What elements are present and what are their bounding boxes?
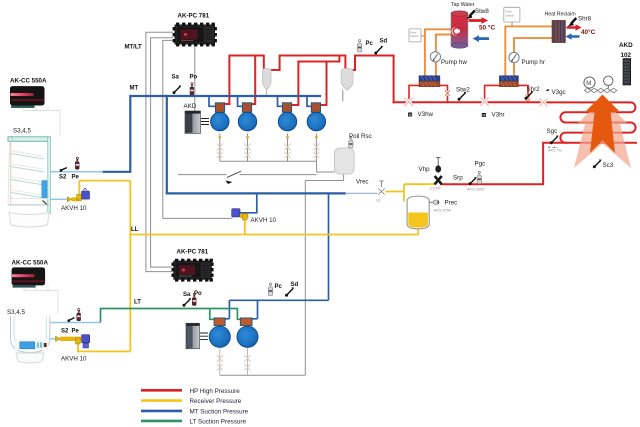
GREEN-CIRCUIT <box>101 309 243 323</box>
compressor M2 <box>238 103 256 139</box>
wire Vrec to receiver <box>386 192 405 202</box>
gas cooler air arrow shadow <box>574 99 631 168</box>
gas cooler air arrow <box>585 95 620 154</box>
sensor Sa LT probe <box>183 298 192 307</box>
wire liquid line LL <box>130 234 418 236</box>
pump hw <box>430 52 440 62</box>
wire oil stub LT comp1 <box>219 348 221 375</box>
sensor Sc3 probe <box>593 159 602 168</box>
wire discharge comp2 riser <box>251 56 255 105</box>
wire oil stub comp1 <box>219 134 221 162</box>
wire MT suction main from cases <box>103 96 320 172</box>
svg-text:AKS-2050: AKS-2050 <box>433 209 452 213</box>
svg-text:Sa: Sa <box>183 292 191 298</box>
tap water tank <box>451 11 468 48</box>
wire discharge comp3 riser <box>291 62 298 106</box>
wire LT suction drop comp1 <box>210 309 215 320</box>
wire tap-water loop return <box>425 29 452 75</box>
svg-text:S3,4,5: S3,4,5 <box>7 309 25 316</box>
controller AK-PC 781 (MT) <box>173 23 217 47</box>
wire ctrl-MT-3 to AKVH injection coil <box>163 40 233 218</box>
controller AK-CC 550A (LT) <box>12 267 46 287</box>
wire LT discharge comp2 <box>252 300 258 319</box>
wire liquid branch LT case <box>78 342 130 351</box>
gas cooler fan symbol <box>590 76 614 90</box>
svg-text:Sa: Sa <box>172 75 180 81</box>
svg-text:Switch: Switch <box>410 34 419 38</box>
ORANGE-CIRCUIT <box>425 26 552 75</box>
wire injection drop to AKVH <box>240 193 257 212</box>
wire MT case liquid feed <box>50 198 69 200</box>
wire flow-switch2 connector <box>511 22 513 26</box>
svg-text:Heat Reclaim: Heat Reclaim <box>545 12 576 18</box>
svg-text:M: M <box>586 81 591 87</box>
valve V3hw <box>405 98 413 106</box>
svg-text:Shr2: Shr2 <box>527 86 541 93</box>
compressor M4 <box>307 103 325 139</box>
wire oil-sep1 drain <box>266 86 268 96</box>
check valve CV1 <box>445 90 450 96</box>
flow switch 2 <box>504 7 520 22</box>
wire flow-switch1 connector <box>421 35 425 37</box>
sensor V3gc marker <box>547 90 550 91</box>
svg-text:Stw8: Stw8 <box>475 8 489 15</box>
wire LT discharge manifold <box>229 299 328 301</box>
wire MT case suction light <box>50 171 103 173</box>
sensor S2 MT probe <box>60 168 67 172</box>
wire oil-sep2 drain <box>342 90 344 102</box>
wire AK-CC MT to case sensors <box>24 106 60 136</box>
wire heat-exchanger Stw2 loop <box>409 85 448 102</box>
svg-text:S3,4,5: S3,4,5 <box>13 128 31 135</box>
wire LT discharge riser <box>328 193 330 300</box>
controller AK-PC 781 (LT) <box>172 259 214 282</box>
LEGEND <box>141 388 249 426</box>
valve V3hr <box>480 98 488 106</box>
svg-text:AKS Tw: AKS Tw <box>547 149 562 153</box>
svg-text:Vrec: Vrec <box>356 179 369 186</box>
compressor L1 <box>209 318 230 347</box>
svg-text:Srp: Srp <box>453 175 463 182</box>
sensor Shr2 probe <box>525 91 534 100</box>
wire AK-CC LT to case sensors <box>24 286 58 314</box>
arrow hot water out 50C <box>469 17 489 24</box>
wire suction drop comp3 <box>278 96 282 106</box>
svg-text:Switch: Switch <box>505 14 514 18</box>
svg-text:HP High Pressure: HP High Pressure <box>190 388 241 395</box>
drive AKD (LT) <box>186 323 208 348</box>
sensor Sa MT probe <box>173 85 182 94</box>
wire oil stub comp3 <box>287 134 289 162</box>
valve AKVH MT case <box>67 188 89 202</box>
sensor S2 LT probe <box>67 318 74 322</box>
sensor Sd LT probe <box>285 287 294 297</box>
svg-text:V3hw: V3hw <box>418 111 434 118</box>
wire LT case liquid feed <box>45 338 60 340</box>
SENSORS <box>60 11 602 323</box>
svg-text:50 °C: 50 °C <box>479 24 495 32</box>
switch break symbol <box>227 171 241 177</box>
YELLOW-CIRCUIT <box>78 181 435 352</box>
legend LT line <box>141 420 182 423</box>
flow switch 1 <box>409 29 421 42</box>
svg-text:AKVH 10: AKVH 10 <box>61 356 87 363</box>
wire discharge comp4 riser <box>320 62 327 106</box>
svg-text:Sgc: Sgc <box>547 128 558 135</box>
sensor Po LT transmitter <box>192 293 196 306</box>
svg-text:CCMT: CCMT <box>430 187 442 191</box>
wire receiver outlet <box>417 229 419 235</box>
svg-text:Tap Water: Tap Water <box>451 2 475 8</box>
controller AK-CC 550A (MT) <box>10 86 45 108</box>
wire suction header to Vrec <box>345 192 378 194</box>
service valves under LT compressors <box>217 355 251 371</box>
valve AKVH injection <box>232 209 249 220</box>
wire suction drop comp4 <box>307 96 311 106</box>
compressor M1 <box>211 103 229 139</box>
wire Vhp outlet to receiver <box>404 184 435 191</box>
svg-text:MT: MT <box>130 86 139 92</box>
svg-text:Poil Rsc: Poil Rsc <box>349 133 372 140</box>
svg-text:Receiver Pressure: Receiver Pressure <box>190 398 242 405</box>
display case LT island freezer <box>11 316 50 364</box>
svg-text:Pc: Pc <box>366 41 374 47</box>
svg-text:M: M <box>409 113 412 117</box>
wire oil-sep1 outlet <box>272 56 346 71</box>
svg-text:S2: S2 <box>59 175 67 181</box>
legend receiver line <box>141 399 182 402</box>
svg-text:LT: LT <box>134 300 141 306</box>
svg-text:AK-CC 550A: AK-CC 550A <box>10 78 47 85</box>
wire liquid main vertical <box>129 181 131 352</box>
wire oil equalizing line with break <box>178 174 317 176</box>
gas cooler serpentine coil <box>543 102 636 142</box>
heat exchanger Stw2 <box>419 76 440 87</box>
svg-text:AK-CC 550A: AK-CC 550A <box>12 260 49 267</box>
wire oil stub comp2 <box>247 134 249 162</box>
wire ctrl-MT-2 to LT controller <box>151 38 174 267</box>
svg-text:Pe: Pe <box>72 329 80 335</box>
wire oil reservoir to LT rack <box>305 174 343 375</box>
svg-text:AKD: AKD <box>184 103 197 110</box>
legend MT line <box>141 410 182 413</box>
oil separator 2 <box>341 68 353 90</box>
svg-text:Pump hw: Pump hw <box>441 59 467 66</box>
svg-text:V3hr: V3hr <box>492 112 505 119</box>
legend HP line <box>141 389 182 392</box>
wire heat-exchanger Shr2 loop <box>485 85 528 102</box>
arrow cold water in <box>473 35 489 42</box>
svg-text:S2: S2 <box>61 329 69 335</box>
drive AKD (MT) <box>185 111 209 133</box>
wire liquid branch injection AKVH <box>244 220 246 235</box>
svg-text:AKD: AKD <box>619 42 633 49</box>
WIRES-GRAY <box>24 22 512 375</box>
compressor M3 <box>278 103 296 139</box>
wire LT case suction light <box>46 322 101 324</box>
svg-text:AK-PC 781: AK-PC 781 <box>178 13 210 20</box>
svg-text:AK-PC 781: AK-PC 781 <box>177 249 209 256</box>
sensor Poil transmitter <box>349 137 353 148</box>
display case MT S3,4,5 <box>8 136 50 227</box>
gas cooler fan motor M <box>584 77 595 88</box>
wire suction header riser <box>166 96 168 193</box>
svg-text:Shr8: Shr8 <box>578 16 592 23</box>
drive AKD 102 <box>623 59 631 86</box>
wire tap-water loop pump line <box>436 35 452 76</box>
actuator M V3hr <box>482 113 486 117</box>
wire discharge comp1 riser <box>224 56 264 105</box>
svg-text:Sd: Sd <box>380 39 388 45</box>
svg-text:Po: Po <box>194 291 202 297</box>
wire lower suction header <box>167 192 345 194</box>
sensor Shr8 arrow <box>568 18 577 27</box>
svg-text:Pgc: Pgc <box>475 161 486 168</box>
compressor L2 <box>237 318 258 347</box>
COMPONENTS-RIGHT <box>56 7 632 348</box>
wire LT suction main <box>101 309 243 323</box>
wire ctrl to AKD drive <box>194 46 196 111</box>
heat reclaim coil unit <box>552 21 565 43</box>
sensor Pe LT transmitter <box>77 309 81 321</box>
label AKS Tw tiny <box>547 147 562 153</box>
svg-text:Pc: Pc <box>275 284 283 290</box>
svg-text:Po: Po <box>190 75 198 81</box>
wire oil collector MT <box>220 161 335 172</box>
wire heat-reclaim loop return <box>505 26 552 75</box>
svg-text:AKVH 10: AKVH 10 <box>61 205 87 212</box>
svg-text:40°C: 40°C <box>581 28 596 36</box>
wire suction drop comp1 <box>209 96 216 106</box>
sensor Srp probe <box>469 177 477 185</box>
sensor Sd HP probe <box>374 46 383 55</box>
sensor Pgc transmitter <box>477 171 481 184</box>
svg-text:Sd: Sd <box>291 282 299 288</box>
sensor Stw8 arrow <box>466 11 475 20</box>
pump hr <box>509 52 519 62</box>
sensor Pc HP transmitter <box>357 40 361 53</box>
svg-text:LT Suction Pressure: LT Suction Pressure <box>190 418 247 425</box>
wire heat-reclaim loop pump line <box>514 38 552 76</box>
svg-text:MT Suction Pressure: MT Suction Pressure <box>190 408 249 415</box>
valve AKVH LT case <box>56 335 90 348</box>
wire suction drop comp2 <box>238 96 243 106</box>
oil reservoir vessel <box>334 148 354 174</box>
receiver vessel <box>407 196 429 229</box>
svg-text:Sc3: Sc3 <box>603 162 614 169</box>
BLUE-CIRCUIT <box>45 96 378 339</box>
fan diamond linkage <box>585 88 617 93</box>
sensor Stw2 probe <box>458 92 467 101</box>
svg-text:Pe: Pe <box>72 175 80 181</box>
svg-text:LL: LL <box>131 227 139 233</box>
arrow heat reclaim in <box>566 33 580 39</box>
sensor Pc LT transmitter <box>268 283 272 296</box>
svg-text:V3gc: V3gc <box>552 89 566 96</box>
arrow heat reclaim out 40C <box>567 24 582 30</box>
wire oil stub LT comp2 <box>247 348 249 376</box>
wire discharge sub-manifold <box>298 56 339 62</box>
wire ctrl-MT-1 to LT controller <box>146 32 173 271</box>
sensor Pe MT transmitter <box>75 157 79 169</box>
wire liquid branch MT case <box>79 181 130 194</box>
svg-text:AKS-2050: AKS-2050 <box>466 188 485 192</box>
wire HP main to gas cooler <box>394 101 544 103</box>
svg-text:MT/LT: MT/LT <box>125 45 143 51</box>
svg-text:102: 102 <box>621 52 632 59</box>
valve Vhp CCMT <box>435 158 442 185</box>
svg-text:Pump hr: Pump hr <box>522 59 545 66</box>
service valves under MT compressors <box>217 144 320 159</box>
wire oil stub comp4 <box>315 134 317 162</box>
valve V3gc <box>539 98 547 106</box>
svg-text:Stw2: Stw2 <box>456 87 470 94</box>
svg-text:M: M <box>482 113 485 117</box>
wire LT discharge comp1 <box>225 300 229 319</box>
wire gas cooler outlet <box>441 143 565 184</box>
sensor Po MT transmitter <box>190 83 194 96</box>
wire oil collector LT <box>220 374 305 376</box>
svg-text:AKVH 10: AKVH 10 <box>251 217 277 224</box>
svg-text:Vhp: Vhp <box>419 166 431 173</box>
arrow under break <box>226 181 233 185</box>
svg-text:Prec: Prec <box>445 200 458 207</box>
heat exchanger Shr2 <box>499 76 518 87</box>
valve Vrec <box>378 181 384 195</box>
RED-CIRCUIT <box>224 56 636 185</box>
oil separator 1 <box>262 68 271 90</box>
sensor Prec transmitter <box>429 200 439 205</box>
wire oil-sep2 outlet to HP main <box>353 56 393 103</box>
actuator M V3hw <box>408 113 412 117</box>
svg-text:UL: UL <box>376 199 381 203</box>
sensor Sgc probe <box>550 135 559 144</box>
check valve CV2 <box>526 95 531 101</box>
